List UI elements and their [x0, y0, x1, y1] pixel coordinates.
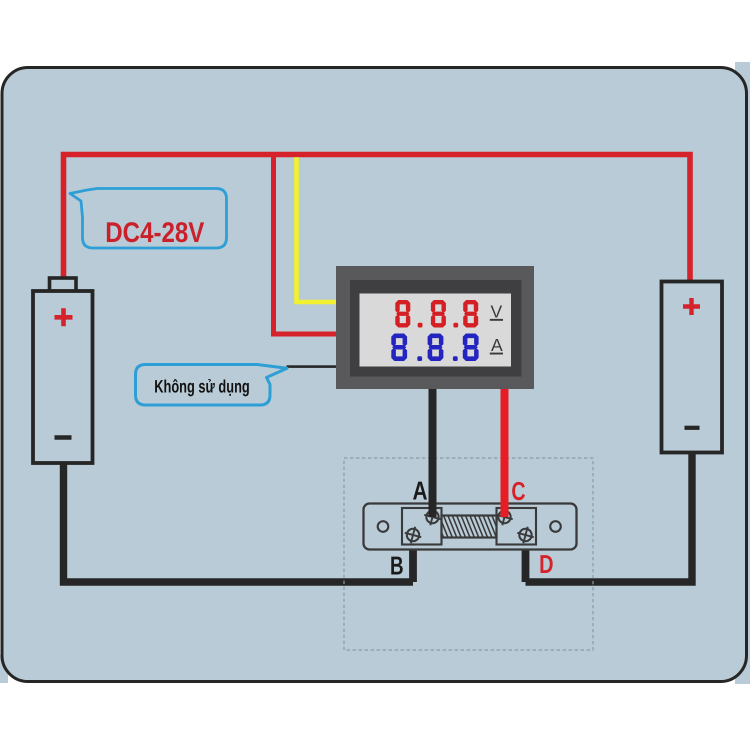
svg-text:A: A	[491, 335, 503, 355]
svg-text:Không sử dụng: Không sử dụng	[154, 377, 250, 397]
svg-text:DC4-28V: DC4-28V	[105, 217, 204, 249]
svg-text:D: D	[539, 549, 553, 579]
svg-text:V: V	[490, 302, 502, 322]
svg-text:B: B	[390, 551, 404, 581]
svg-text:A: A	[413, 476, 428, 506]
svg-text:C: C	[511, 476, 525, 506]
